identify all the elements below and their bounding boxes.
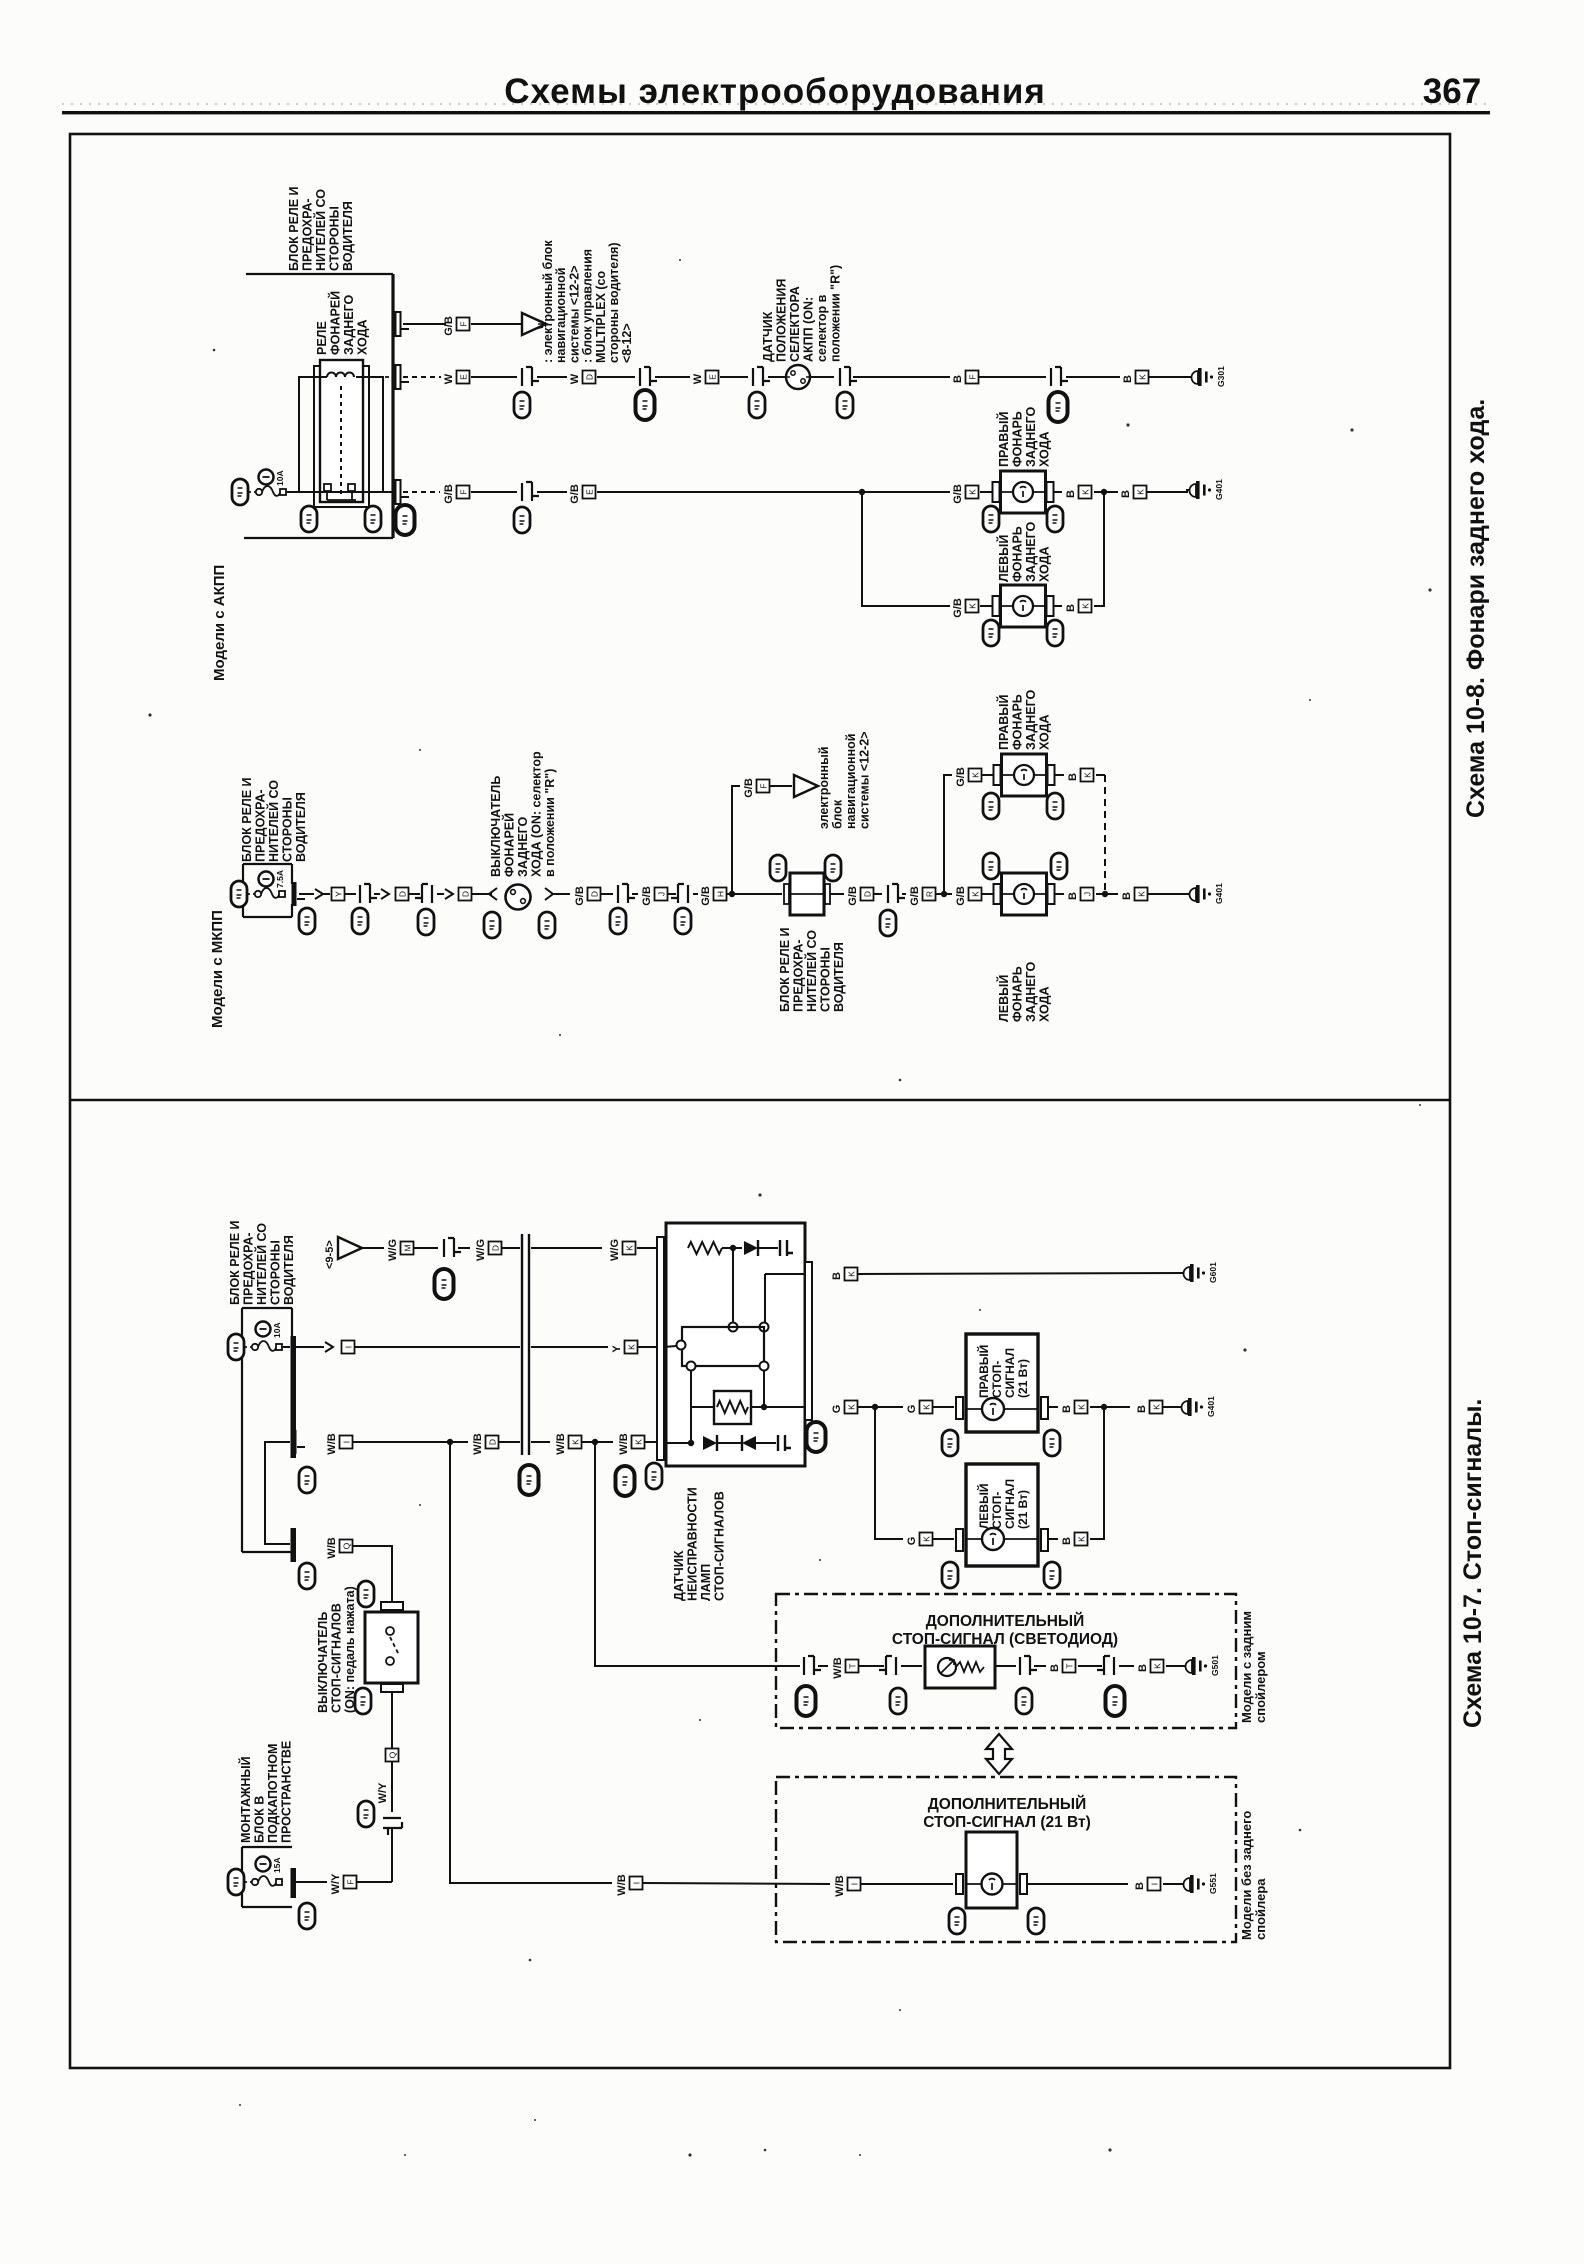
connector oval W/G (435, 1269, 454, 1299)
wire right lamp MKPP to B (1055, 774, 1064, 776)
wire label W/B 1 (326, 1433, 353, 1454)
wire label G right stop lamp (906, 1401, 933, 1414)
wire Y inside (283, 1346, 290, 1348)
wire code square 2 MKPP (396, 888, 409, 901)
wire MKPP seg17 (936, 893, 952, 895)
wire label G/B top (443, 316, 470, 336)
svg-text:W/B: W/B (834, 1875, 846, 1896)
wire label W/B 2 (472, 1433, 499, 1454)
svg-text:G: G (906, 1537, 918, 1546)
svg-text:B: B (1121, 892, 1133, 900)
block pin G/B top exit (396, 312, 410, 336)
engine box outline top (242, 1846, 292, 1848)
svg-text:G/B: G/B (700, 886, 712, 906)
wire label G/B bottom 2 (569, 484, 596, 504)
wire sub-box to junction (751, 1406, 762, 1408)
oval under relay right (365, 506, 381, 532)
stop lamp failure sensor box (666, 1223, 805, 1466)
label right reversing lamp AKPP (996, 406, 1052, 467)
wire B to ground G401 (1146, 491, 1188, 493)
block pin W exit (396, 365, 410, 389)
svg-text:K: K (1083, 772, 1093, 778)
svg-text:G: G (906, 1405, 918, 1414)
wire B to ground MKPP (1148, 893, 1188, 895)
wire label W 2 (569, 371, 596, 385)
wire W/G seg2 (414, 1247, 438, 1249)
splice chevron 3 (445, 889, 453, 899)
wire W/B into box2 (643, 1883, 830, 1884)
svg-text:G401: G401 (1214, 479, 1224, 500)
label electronic navigation unit MKPP (817, 731, 872, 829)
header rule (62, 111, 1490, 114)
connector oval LED 3 (1016, 1688, 1032, 1714)
svg-text:B: B (1067, 892, 1079, 900)
wire label W/Y (330, 1873, 357, 1894)
wire MKPP seg12 (727, 893, 730, 895)
stop block pin bar lower (291, 1528, 297, 1562)
wire LED seg7 (1119, 1665, 1134, 1667)
svg-text:Q: Q (388, 1751, 398, 1758)
oval above left lamp MKPP L (983, 853, 999, 879)
inline connector MKPP 3 (618, 884, 635, 903)
wire to right lamp MKPP (982, 774, 994, 776)
wire W seg3 (597, 376, 635, 378)
oval under W/B label 3 (616, 1466, 635, 1496)
wire W/G seg6 (637, 1247, 666, 1249)
left reversing lamp AKPP (993, 585, 1054, 627)
junction B MKPP (1102, 891, 1108, 897)
connector oval LED 2 (890, 1688, 906, 1714)
svg-text:B: B (1065, 490, 1077, 498)
wire MKPP seg5 (437, 893, 444, 895)
wire W/B seg7 (645, 1441, 664, 1443)
connector oval W 1 (514, 392, 530, 418)
relay W dashed stub (364, 376, 394, 378)
wire left stop lamp out (1048, 1538, 1058, 1540)
ground G601 (1180, 1262, 1218, 1283)
svg-text:W/G: W/G (387, 1239, 399, 1261)
wire label G/B MKPP 2 (641, 886, 668, 906)
label relay/fuse block 2 MKPP (778, 927, 846, 1012)
inline connector LED 3 (1020, 1656, 1037, 1675)
dash-dot box: models without rear spoiler (776, 1777, 1236, 1942)
svg-text:D: D (590, 891, 600, 897)
wire label W/G 3 (609, 1239, 636, 1261)
oval above relay block 2 R (825, 855, 841, 881)
wire B stop to ground (1163, 1406, 1182, 1408)
wire LED to ground (1166, 1665, 1186, 1667)
wire label G/B MKPP 1 (574, 886, 601, 906)
diode top row (744, 1240, 758, 1256)
sensor relay rect (682, 1327, 764, 1366)
dashed vertical B link MKPP (1096, 774, 1105, 776)
fuse 10A stop (256, 1322, 283, 1339)
wire W/B to LED box (595, 1442, 800, 1666)
svg-text:F: F (759, 783, 769, 788)
wire W/G seg5 (531, 1247, 602, 1249)
terminal circle left (Y input) (677, 1341, 686, 1350)
svg-text:W/G: W/G (609, 1239, 621, 1261)
svg-text:B: B (1061, 1537, 1073, 1545)
svg-text:СТОП-СИГНАЛ (21 Вт): СТОП-СИГНАЛ (21 Вт) (923, 1814, 1091, 1831)
wire LED seg2 (859, 1665, 884, 1667)
block pin G/B bottom exit (396, 480, 410, 504)
label fuse/relay block (driver side) AKPP (287, 186, 355, 271)
svg-text:W: W (569, 373, 581, 384)
connector oval G/B 1 (514, 507, 530, 533)
wire label B to ground (1120, 486, 1147, 499)
wire W/G seg1 (362, 1247, 384, 1249)
stop block pin bar upper (291, 1336, 297, 1458)
ground G401 AKPP (1186, 479, 1224, 500)
connector oval W 2 (636, 390, 655, 420)
junction top row (730, 1245, 736, 1251)
dash-dot box: models with rear spoiler (776, 1594, 1236, 1728)
label page ref 9-5 (324, 1240, 336, 1269)
svg-text:F: F (459, 321, 469, 326)
wire W/B row into box (664, 1442, 689, 1444)
wire label B LED 2 (1137, 1660, 1164, 1673)
wire MKPP seg14 (830, 893, 844, 895)
label left reversing lamp AKPP (996, 521, 1052, 582)
AT selector position sensor (786, 365, 810, 389)
junction W/B spoiler feed 1 (447, 1439, 453, 1445)
svg-text:G/B: G/B (569, 484, 581, 504)
wire label G/B left lamp MKPP (955, 886, 982, 906)
wire G to right stop lamp (932, 1406, 954, 1408)
wire G seg1 (858, 1406, 872, 1408)
oval under lower pin (299, 1563, 315, 1589)
engine box outline bottom (242, 1906, 292, 1908)
wire label G sensor out (831, 1401, 858, 1414)
label left reversing lamp MKPP (996, 961, 1052, 1022)
wire W/Y to switch join (357, 1881, 392, 1883)
wire code square 3 MKPP (459, 888, 472, 901)
svg-text:I: I (850, 1883, 860, 1885)
wire B right stop seg (1090, 1406, 1102, 1408)
oval under right lamp MKPP L (983, 793, 999, 819)
wire G out (764, 1406, 805, 1408)
caption Схема 10-8 (1462, 399, 1490, 818)
fuse/relay block outline bottom (244, 537, 393, 539)
reversing light switch MKPP (506, 885, 531, 910)
relay center dashed link (340, 386, 342, 497)
splice chevron 2 (381, 889, 389, 899)
ground G501 (1182, 1655, 1220, 1676)
svg-text:E: E (459, 374, 469, 380)
wire label B right stop (1061, 1401, 1088, 1414)
wire label B 1 (W line) (952, 371, 979, 384)
wire MKPP seg15 (874, 893, 882, 895)
wire to sub-box (691, 1406, 714, 1408)
oval under right lamp AKPP R (1047, 506, 1063, 532)
svg-text:: электронный блокнавигационно: : электронный блокнавигационнойсистемы <… (541, 240, 634, 363)
label electronic navigation unit / MULTIPLEX (541, 240, 634, 363)
wire label W/B 3 (555, 1433, 582, 1454)
wire label G/B MKPP 5 (909, 886, 936, 906)
oval under relay block pin (396, 505, 415, 535)
svg-text:B: B (1122, 375, 1134, 383)
wire LED seg5 (1034, 1665, 1046, 1667)
wire W/Y out (296, 1881, 327, 1883)
wire left lamp MKPP to B (1055, 893, 1064, 895)
wire MKPP seg11 (693, 893, 698, 895)
branch wire to nav unit MKPP (732, 786, 740, 894)
svg-text:D: D (585, 374, 595, 380)
inline connector MKPP 5 (888, 884, 905, 903)
sensor box left connector bar (657, 1237, 664, 1460)
oval under 21W lamp R (1028, 1908, 1044, 1934)
wire res to junction (722, 1247, 742, 1249)
wire G seg2 (875, 1406, 903, 1408)
supplementary stop lamp 21W (956, 1832, 1027, 1908)
wire LED seg6 (1078, 1665, 1102, 1667)
svg-text:15A: 15A (272, 1857, 282, 1873)
svg-text:I: I (1150, 1883, 1160, 1885)
sensor box right connector bar (805, 1262, 812, 1420)
wire Y seg1 (355, 1346, 520, 1348)
svg-text:ДОПОЛНИТЕЛЬНЫЙ: ДОПОЛНИТЕЛЬНЫЙ (926, 1612, 1084, 1630)
wire label G/B MKPP 3 (700, 886, 727, 906)
ground G301 (1188, 366, 1226, 387)
scan noise dots (148, 221, 1431, 2157)
svg-text:K: K (1153, 1663, 1163, 1669)
oval switch top (358, 1581, 374, 1607)
svg-text:G/B: G/B (743, 778, 755, 798)
inline connector W/G (444, 1238, 461, 1257)
svg-text:W: W (692, 373, 704, 384)
oval under engine box pin (299, 1903, 315, 1929)
wire LED seg4 (995, 1665, 1016, 1667)
wire B stop to label (1104, 1406, 1130, 1408)
svg-text:W/B: W/B (472, 1433, 484, 1454)
right stop lamp box (956, 1334, 1048, 1432)
connector oval MKPP feed (231, 881, 247, 907)
svg-text:B: B (1134, 1882, 1146, 1890)
wire label W/B 4 (618, 1433, 645, 1454)
header smudge dots (62, 103, 1490, 105)
wire W/B seg2 (450, 1441, 468, 1443)
svg-text:J: J (1083, 892, 1093, 896)
svg-text:10A: 10A (272, 1322, 282, 1338)
svg-text:Y: Y (334, 891, 344, 897)
svg-text:E: E (585, 489, 595, 495)
oval under sensor box left (646, 1463, 662, 1489)
label models with MKPP (209, 910, 226, 1028)
MKPP block outline right2 (291, 904, 293, 917)
svg-text:Модели с МКПП: Модели с МКПП (209, 910, 226, 1028)
wire label B ground MKPP (1121, 888, 1148, 901)
svg-text:B: B (1065, 604, 1077, 612)
inline connector sensor right (840, 367, 857, 386)
svg-text:K: K (1077, 1404, 1087, 1410)
stop block inner link to lower pin (265, 1442, 290, 1544)
label models with rear spoiler (1239, 1611, 1268, 1723)
triangle to navigation unit MKPP (794, 775, 818, 797)
wire W seg6 (768, 376, 786, 378)
wire label G/B right lamp (952, 484, 979, 504)
inline connector MKPP 2 (415, 884, 432, 903)
svg-text:G/B: G/B (952, 484, 964, 504)
wire to left lamp MKPP (982, 893, 994, 895)
svg-text:K: K (1138, 374, 1148, 380)
svg-text:7.5A: 7.5A (275, 870, 285, 888)
svg-text:I: I (632, 1882, 642, 1884)
ground G551 (1180, 1873, 1218, 1894)
schematic divider (70, 1099, 1450, 1102)
left reversing lamp MKPP (994, 873, 1055, 915)
diode bottom row 1 (703, 1435, 717, 1451)
junction bus connector (double bar) (522, 1234, 529, 1455)
wire B out vertical (764, 1274, 766, 1322)
relay coil right lead loop (356, 377, 383, 492)
wire LED seg1 (818, 1665, 828, 1667)
wire MKPP seg10 (668, 893, 676, 895)
oval above relay block 2 L (770, 855, 786, 881)
wire G/B to nav triangle (471, 323, 521, 325)
wire label B left lamp MKPP (1067, 888, 1094, 901)
stop block outline right upper (291, 1308, 293, 1336)
fuse 15A engine box (256, 1857, 283, 1874)
svg-text:J: J (657, 892, 667, 896)
svg-text:W/Y: W/Y (330, 1873, 342, 1894)
relay/fuse block 2 (driver side) MKPP (784, 873, 830, 915)
capacitor bottom row (778, 1435, 791, 1451)
wire bottom-right terminal down (763, 1371, 765, 1407)
svg-text:E: E (708, 374, 718, 380)
wire to left lamp (980, 605, 992, 607)
svg-text:Модели с АКПП: Модели с АКПП (211, 565, 228, 681)
svg-text:W/B: W/B (832, 1657, 844, 1678)
oval under relay left (301, 506, 317, 532)
label fuse/relay block (driver side) stop (228, 1220, 296, 1305)
wire W seg5 (720, 376, 748, 378)
svg-text:F: F (459, 489, 469, 494)
label right stop lamp (976, 1345, 1030, 1398)
terminal circle bottom left (687, 1362, 696, 1371)
svg-text:B: B (831, 1272, 843, 1280)
relay inner body (320, 360, 363, 502)
wire right lamp to B (1054, 491, 1062, 493)
wire W dashed start (403, 376, 441, 378)
switch contact arrow left (484, 888, 497, 900)
wire code square 1 MKPP (332, 888, 345, 901)
MKPP block outline bottom (243, 916, 292, 918)
svg-text:F: F (968, 374, 978, 379)
wire MKPP seg1b (323, 893, 330, 895)
svg-text:B: B (1049, 1664, 1061, 1672)
oval under right stop lamp R (1044, 1430, 1060, 1456)
svg-text:W/G: W/G (475, 1239, 487, 1261)
stop light switch body (365, 1612, 418, 1683)
connector oval MKPP 3 (610, 908, 626, 934)
svg-text:D: D (491, 1245, 501, 1251)
svg-text:B: B (1136, 1405, 1148, 1413)
wire label G/B nav MKPP (743, 778, 770, 798)
wire label W/G 1 (387, 1239, 414, 1261)
wire W/G seg4 (502, 1247, 520, 1249)
fuse/relay block outline right (391, 274, 394, 538)
wire Y pin into box (664, 1346, 676, 1347)
wire label W/B 21W (834, 1875, 861, 1896)
svg-text:ДОПОЛНИТЕЛЬНЫЙ: ДОПОЛНИТЕЛЬНЫЙ (928, 1795, 1086, 1813)
oval under MKPP block pin (299, 908, 315, 934)
svg-text:K: K (847, 1404, 857, 1410)
wire label W 3 (692, 371, 719, 385)
wire label W/B LED (832, 1657, 859, 1678)
inline connector sensor left (753, 367, 770, 386)
relay contacts (324, 484, 356, 500)
relay coil (327, 373, 354, 378)
fuse 10A AKPP (259, 470, 286, 487)
outer frame (70, 134, 1450, 2068)
oval under W/B pin (299, 1467, 315, 1493)
wire diode2 to cap (756, 1442, 776, 1444)
svg-text:K: K (968, 489, 978, 495)
connector oval MKPP 4 (675, 908, 691, 934)
svg-text:B: B (1120, 490, 1132, 498)
wire MKPP seg16 (902, 893, 906, 895)
svg-text:K: K (922, 1536, 932, 1542)
wire label B left stop (1061, 1533, 1088, 1546)
fusible link MKPP (255, 888, 285, 898)
title supplementary stop lamp (LED) (892, 1612, 1118, 1648)
caption Схема 10-7 (1459, 1399, 1487, 1728)
wire MKPP B seg (1096, 893, 1118, 895)
resistor top row (688, 1242, 722, 1254)
engine box pin bar (291, 1868, 297, 1898)
diode bottom row 2 (742, 1435, 756, 1451)
wire label G/B left lamp (952, 598, 979, 618)
wire oval to link stop (244, 1346, 251, 1348)
wire W/B seg3 (499, 1441, 520, 1443)
right reversing lamp MKPP (994, 754, 1055, 796)
oval switch bottom (355, 1688, 371, 1714)
wire W/B seg5 (582, 1441, 593, 1443)
wire label W/B long (616, 1874, 643, 1895)
oval under sensor box right (807, 1422, 826, 1452)
wire W/B long to 21W lamp (450, 1442, 612, 1883)
svg-text:K: K (922, 1404, 932, 1410)
wire W seg7 (810, 376, 834, 378)
MKPP block outline top (243, 863, 292, 865)
svg-text:G/B: G/B (443, 316, 455, 336)
splice chevron 1 (315, 889, 323, 899)
stop block outline top (242, 1307, 292, 1309)
wire oval to link engine (244, 1881, 251, 1883)
svg-text:G/B: G/B (952, 598, 964, 618)
wire to right lamp (980, 491, 992, 493)
wire W seg4 (655, 376, 690, 378)
svg-text:K: K (1136, 489, 1146, 495)
oval under right lamp MKPP R (1047, 793, 1063, 819)
wire nav to triangle MKPP (770, 785, 792, 787)
switch contact arrow right (545, 888, 561, 900)
wire W seg1 (471, 376, 517, 378)
wire label B LED 1 (1049, 1660, 1076, 1673)
inline connector G/B 1 (522, 482, 539, 501)
connector oval battery feed (232, 479, 248, 505)
inline connector LED 1 (804, 1656, 821, 1675)
svg-text:K: K (1077, 1536, 1087, 1542)
svg-text:G/B: G/B (641, 886, 653, 906)
wire MKPP seg6 (472, 893, 484, 895)
svg-text:K: K (627, 1344, 637, 1350)
wire MKPP seg4 (409, 893, 420, 895)
svg-text:T: T (848, 1663, 858, 1668)
svg-text:B: B (952, 375, 964, 383)
svg-text:D: D (488, 1439, 498, 1445)
